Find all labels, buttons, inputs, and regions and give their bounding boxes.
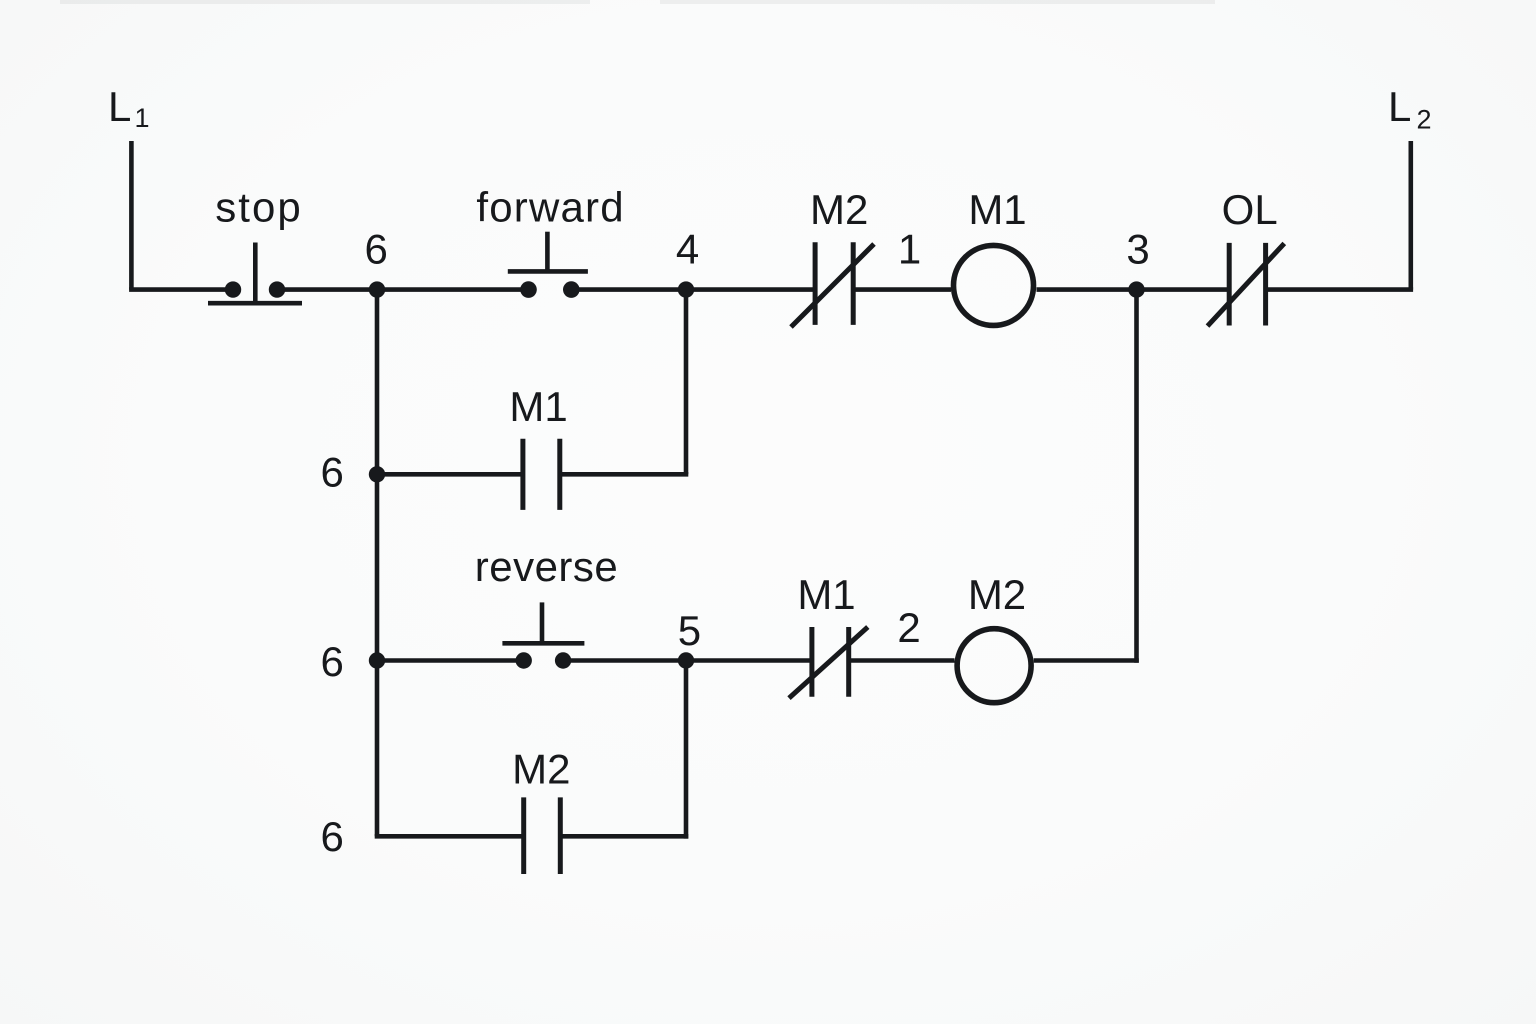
svg-text:stop: stop bbox=[215, 184, 302, 231]
svg-text:L: L bbox=[108, 83, 131, 130]
svg-text:OL: OL bbox=[1222, 186, 1278, 233]
svg-text:M1: M1 bbox=[797, 571, 855, 618]
svg-text:6: 6 bbox=[321, 449, 344, 496]
svg-text:6: 6 bbox=[321, 638, 344, 685]
svg-text:5: 5 bbox=[678, 607, 701, 654]
svg-text:M1: M1 bbox=[968, 186, 1026, 233]
svg-text:M2: M2 bbox=[810, 186, 868, 233]
svg-text:4: 4 bbox=[676, 226, 699, 273]
svg-text:2: 2 bbox=[1417, 105, 1432, 135]
svg-text:2: 2 bbox=[897, 604, 920, 651]
svg-text:reverse: reverse bbox=[475, 543, 619, 590]
svg-text:M1: M1 bbox=[509, 383, 567, 430]
svg-text:3: 3 bbox=[1126, 226, 1149, 273]
svg-text:M2: M2 bbox=[968, 571, 1026, 618]
svg-text:M2: M2 bbox=[512, 746, 570, 793]
svg-text:1: 1 bbox=[898, 226, 921, 273]
svg-text:L: L bbox=[1388, 83, 1411, 130]
svg-text:forward: forward bbox=[476, 184, 624, 231]
svg-text:6: 6 bbox=[365, 225, 388, 272]
svg-text:1: 1 bbox=[135, 103, 150, 133]
svg-text:6: 6 bbox=[321, 813, 344, 860]
